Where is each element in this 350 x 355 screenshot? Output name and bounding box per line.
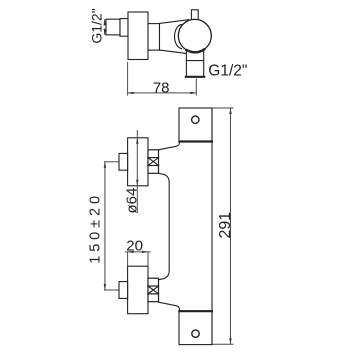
inlet nipple G1/2 (small rect) [106,19,120,35]
outlet thread line [186,60,203,62]
svg-text:291: 291 [217,212,234,239]
dim 78 left extension line [127,62,129,96]
dim 150+-20 bottom extension [104,289,119,291]
dim 20 line [125,251,151,253]
dim o64 line [136,130,138,213]
body left profile lower boss [159,302,180,310]
arrow 150+-20 bottom [104,284,106,290]
dim 78 right extension line [195,79,197,96]
outlet bottom thick edge [186,76,204,78]
svg-text:20: 20 [126,237,143,254]
neck rect [148,24,160,50]
dim G1/2 nipple leader line [104,19,106,25]
dim 20 right extension [147,252,149,266]
top wall union (hatched) [148,150,159,174]
svg-text:G1/2": G1/2" [208,62,247,79]
body left profile upper fillet to barrel [159,173,170,279]
svg-text:150±20: 150±20 [88,192,104,264]
bottom plate thick top edge [179,310,212,312]
dim 291 line [230,108,232,344]
dim 291 top extension [213,107,234,109]
dim 78 line [128,92,197,94]
top mounting plate [179,108,212,142]
bottom handle (flow) rect [128,266,148,314]
wall flange rect [128,12,148,60]
arrow 150+-20 top [104,162,106,168]
top stem rect [191,10,198,20]
bottom mounting plate [179,311,212,345]
knob skirt arc [175,24,182,48]
arrow o64 bottom [136,180,138,186]
arrow 20 left [128,251,134,253]
top handle (temperature) rect [128,138,148,186]
knob circle thick bottom arc [187,49,205,52]
arrow o64 top [136,138,138,144]
dim 150+-20 top extension [104,161,119,163]
arrow nipple bottom [104,29,106,35]
arrow 78 right [190,92,196,94]
bottom wall union (hatched) [148,278,159,302]
dim 291 bottom extension [213,343,234,345]
locknut rect [120,19,128,37]
knob circle [178,19,211,52]
top plate thick bottom edge [179,140,212,142]
dim 20 left extension [127,252,129,266]
top plate hole [192,116,199,123]
arrow nipple top [104,19,106,25]
arrow 291 bottom [229,338,231,344]
dim 150+-20 line [104,162,106,290]
bottom plate hole [192,330,199,337]
arrow 20 right [142,251,148,253]
top handle end cap [119,153,128,170]
svg-text:G1/2": G1/2" [88,8,104,43]
tapered valve body [160,20,192,54]
arrow 78 left [128,92,134,94]
body left profile upper boss [159,143,180,150]
bottom handle end cap [119,282,128,299]
svg-text:78: 78 [153,79,170,96]
arrow 291 top [229,108,231,114]
body right edge [211,108,213,345]
svg-text:ø64: ø64 [123,188,140,214]
outlet pipe (down) [186,48,203,77]
